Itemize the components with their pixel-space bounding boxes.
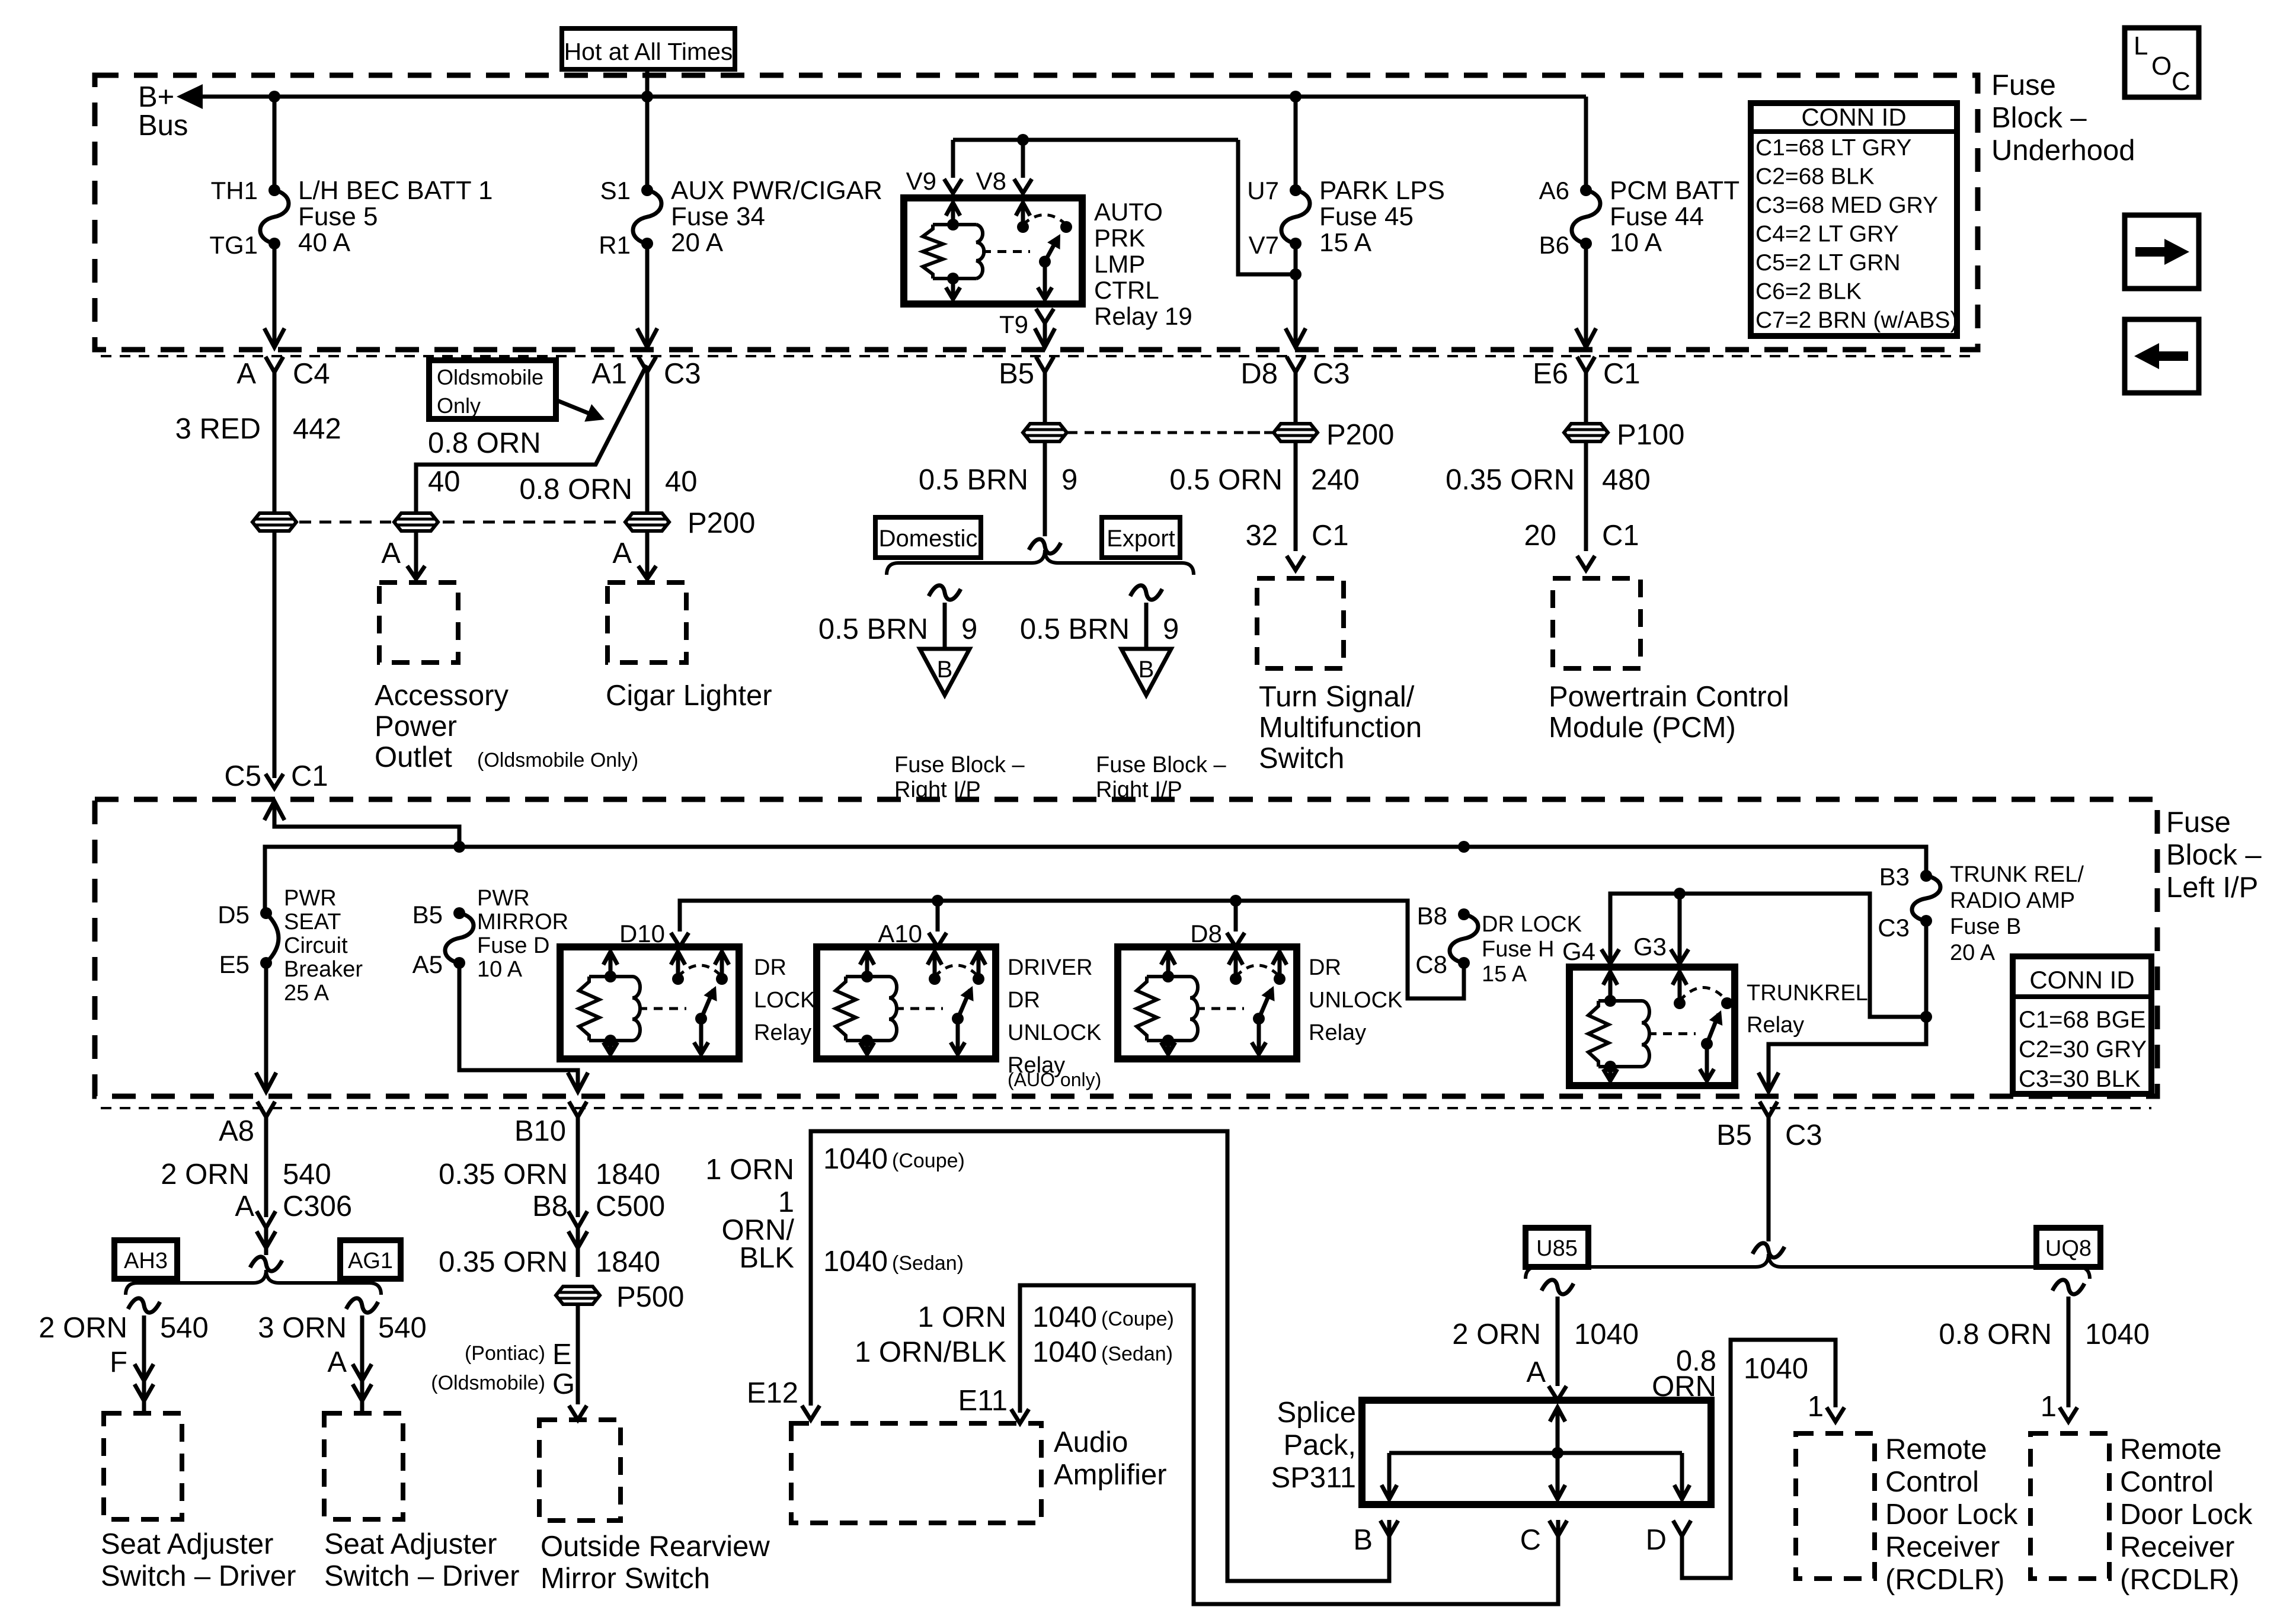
svg-text:CONN ID: CONN ID — [1801, 103, 1906, 131]
svg-text:Outside Rearview: Outside Rearview — [541, 1531, 770, 1563]
svg-text:(Coupe): (Coupe) — [1101, 1308, 1174, 1330]
svg-text:1040: 1040 — [1032, 1301, 1097, 1333]
svg-text:Switch – Driver: Switch – Driver — [324, 1560, 519, 1592]
svg-text:20 A: 20 A — [671, 228, 724, 257]
svg-text:Left I/P: Left I/P — [2166, 872, 2258, 904]
svg-text:Accessory: Accessory — [375, 680, 509, 712]
svg-text:1: 1 — [2041, 1391, 2057, 1423]
svg-text:E12: E12 — [747, 1377, 798, 1409]
svg-text:R1: R1 — [599, 231, 631, 259]
svg-text:TH1: TH1 — [211, 177, 258, 204]
svg-text:D8: D8 — [1190, 920, 1222, 948]
svg-text:E5: E5 — [219, 950, 250, 978]
svg-text:C3: C3 — [664, 358, 701, 390]
svg-text:2 ORN: 2 ORN — [39, 1312, 127, 1344]
svg-text:D8: D8 — [1240, 358, 1278, 390]
svg-text:1040: 1040 — [1032, 1336, 1097, 1368]
svg-text:C: C — [1520, 1524, 1541, 1556]
svg-text:Fuse Block –: Fuse Block – — [1096, 753, 1227, 777]
svg-text:B6: B6 — [1539, 231, 1569, 259]
svg-text:B: B — [1353, 1524, 1373, 1556]
svg-text:C1=68 BGE: C1=68 BGE — [2019, 1007, 2146, 1033]
svg-text:Fuse: Fuse — [1991, 69, 2056, 101]
svg-text:Relay: Relay — [1309, 1020, 1366, 1045]
svg-text:Control: Control — [1885, 1466, 1979, 1498]
svg-text:Underhood: Underhood — [1991, 135, 2135, 167]
svg-text:D5: D5 — [218, 901, 250, 929]
svg-text:C1: C1 — [291, 760, 328, 792]
svg-text:T9: T9 — [999, 311, 1028, 338]
svg-text:AH3: AH3 — [124, 1249, 168, 1273]
svg-text:Control: Control — [2120, 1466, 2214, 1498]
svg-text:10 A: 10 A — [1610, 228, 1662, 257]
svg-text:Power: Power — [375, 710, 457, 742]
svg-text:D: D — [1646, 1524, 1667, 1556]
svg-text:E6: E6 — [1533, 358, 1568, 390]
svg-text:15 A: 15 A — [1482, 962, 1527, 987]
svg-text:Amplifier: Amplifier — [1054, 1459, 1167, 1491]
svg-text:Remote: Remote — [1885, 1433, 1987, 1465]
svg-text:DR LOCK: DR LOCK — [1482, 912, 1582, 937]
svg-text:A: A — [235, 1190, 254, 1222]
svg-text:E11: E11 — [958, 1385, 1008, 1417]
svg-text:LOCK: LOCK — [754, 988, 815, 1013]
svg-text:F: F — [110, 1346, 127, 1378]
svg-text:Pack,: Pack, — [1283, 1429, 1356, 1461]
svg-text:Fuse: Fuse — [2166, 806, 2231, 838]
svg-text:Fuse 44: Fuse 44 — [1610, 202, 1704, 231]
svg-text:10 A: 10 A — [477, 957, 523, 982]
svg-text:Fuse H: Fuse H — [1482, 937, 1554, 962]
svg-text:9: 9 — [1061, 464, 1077, 496]
svg-text:TG1: TG1 — [209, 231, 258, 259]
svg-text:Circuit: Circuit — [284, 933, 348, 958]
svg-text:B5: B5 — [999, 358, 1034, 390]
svg-text:G3: G3 — [1633, 933, 1667, 961]
svg-text:Remote: Remote — [2120, 1433, 2222, 1465]
svg-text:S1: S1 — [600, 177, 631, 204]
svg-text:A8: A8 — [219, 1115, 254, 1147]
svg-text:2 ORN: 2 ORN — [1452, 1318, 1541, 1350]
svg-text:Fuse 45: Fuse 45 — [1319, 202, 1414, 231]
svg-text:C306: C306 — [283, 1190, 352, 1222]
svg-text:C1=68 LT GRY: C1=68 LT GRY — [1755, 135, 1911, 161]
svg-text:B8: B8 — [532, 1190, 568, 1222]
svg-text:Breaker: Breaker — [284, 957, 363, 982]
svg-text:UQ8: UQ8 — [2045, 1236, 2092, 1261]
svg-text:B8: B8 — [1417, 902, 1447, 930]
svg-text:DR: DR — [1309, 955, 1341, 980]
svg-text:G: G — [552, 1368, 575, 1400]
svg-text:A6: A6 — [1539, 177, 1569, 204]
svg-text:C3: C3 — [1313, 358, 1350, 390]
svg-text:A10: A10 — [878, 920, 922, 948]
svg-text:0.35 ORN: 0.35 ORN — [439, 1246, 568, 1278]
svg-text:V7: V7 — [1249, 231, 1279, 259]
svg-text:Fuse B: Fuse B — [1950, 914, 2021, 939]
svg-text:0.35 ORN: 0.35 ORN — [1446, 464, 1575, 496]
svg-text:1040: 1040 — [823, 1246, 888, 1278]
svg-text:Domestic: Domestic — [879, 526, 978, 552]
svg-text:Switch – Driver: Switch – Driver — [101, 1560, 296, 1592]
svg-text:PARK LPS: PARK LPS — [1319, 176, 1445, 205]
svg-text:Block –: Block – — [2166, 839, 2262, 871]
svg-text:A: A — [236, 358, 256, 390]
svg-text:CONN ID: CONN ID — [2029, 966, 2134, 994]
svg-text:0.5 BRN: 0.5 BRN — [818, 613, 928, 645]
svg-text:Mirror Switch: Mirror Switch — [541, 1563, 710, 1595]
svg-text:ORN/: ORN/ — [722, 1214, 795, 1246]
svg-text:1040: 1040 — [823, 1143, 888, 1175]
svg-text:C7=2 BRN (w/ABS): C7=2 BRN (w/ABS) — [1755, 308, 1958, 333]
svg-text:V8: V8 — [976, 167, 1006, 195]
svg-text:Multifunction: Multifunction — [1259, 712, 1422, 744]
svg-text:TRUNK REL/: TRUNK REL/ — [1950, 862, 2084, 887]
svg-text:BLK: BLK — [739, 1242, 794, 1274]
svg-text:1 ORN/BLK: 1 ORN/BLK — [855, 1336, 1006, 1368]
svg-text:C1: C1 — [1312, 520, 1349, 552]
svg-text:A1: A1 — [591, 358, 627, 390]
svg-text:1: 1 — [778, 1186, 794, 1218]
svg-text:L/H BEC BATT 1: L/H BEC BATT 1 — [298, 176, 493, 205]
svg-text:DR: DR — [1008, 988, 1040, 1013]
svg-text:B: B — [1139, 657, 1155, 683]
svg-text:E: E — [552, 1339, 572, 1371]
svg-text:DRIVER: DRIVER — [1008, 955, 1093, 980]
svg-text:240: 240 — [1311, 464, 1360, 496]
svg-text:Block –: Block – — [1991, 102, 2087, 134]
svg-text:(Oldsmobile): (Oldsmobile) — [431, 1372, 545, 1394]
svg-text:Door Lock: Door Lock — [2120, 1499, 2253, 1531]
svg-text:LMP: LMP — [1094, 250, 1145, 278]
svg-text:40: 40 — [665, 466, 698, 498]
svg-text:TRUNKREL: TRUNKREL — [1747, 981, 1868, 1006]
svg-text:Seat Adjuster: Seat Adjuster — [101, 1528, 273, 1560]
svg-text:L: L — [2134, 31, 2148, 60]
svg-text:Module (PCM): Module (PCM) — [1549, 712, 1736, 744]
svg-text:C2=30 GRY: C2=30 GRY — [2019, 1036, 2147, 1062]
svg-text:1040: 1040 — [1574, 1318, 1639, 1350]
svg-text:2 ORN: 2 ORN — [161, 1158, 250, 1190]
svg-text:0.5 BRN: 0.5 BRN — [1020, 613, 1130, 645]
svg-text:C5=2 LT GRN: C5=2 LT GRN — [1755, 250, 1901, 276]
svg-text:C4=2 LT GRY: C4=2 LT GRY — [1755, 222, 1899, 247]
svg-text:Bus: Bus — [138, 110, 188, 142]
svg-text:G4: G4 — [1562, 937, 1595, 965]
svg-text:(Pontiac): (Pontiac) — [465, 1342, 545, 1365]
svg-text:0.5 BRN: 0.5 BRN — [919, 464, 1028, 496]
svg-text:C: C — [2172, 67, 2191, 96]
svg-text:1040: 1040 — [1744, 1353, 1808, 1385]
svg-text:RADIO AMP: RADIO AMP — [1950, 888, 2075, 913]
svg-text:20: 20 — [1524, 520, 1556, 552]
svg-text:0.8 ORN: 0.8 ORN — [428, 427, 541, 459]
svg-text:Cigar Lighter: Cigar Lighter — [606, 680, 772, 712]
svg-text:PRK: PRK — [1094, 224, 1145, 252]
svg-text:0.5 ORN: 0.5 ORN — [1169, 464, 1283, 496]
svg-text:442: 442 — [293, 413, 341, 445]
svg-text:540: 540 — [378, 1312, 427, 1344]
svg-text:Splice: Splice — [1277, 1397, 1356, 1429]
svg-text:PCM BATT: PCM BATT — [1610, 176, 1739, 205]
svg-text:Turn Signal/: Turn Signal/ — [1259, 681, 1415, 713]
svg-text:ORN: ORN — [1652, 1371, 1716, 1403]
svg-text:Door Lock: Door Lock — [1885, 1499, 2018, 1531]
svg-text:20 A: 20 A — [1950, 940, 1996, 965]
svg-text:B5: B5 — [412, 901, 443, 929]
svg-text:A: A — [612, 537, 632, 569]
svg-text:C2=68 BLK: C2=68 BLK — [1755, 164, 1875, 190]
svg-text:B+: B+ — [138, 81, 174, 113]
svg-text:B: B — [937, 657, 953, 683]
svg-text:B10: B10 — [514, 1115, 566, 1147]
svg-text:Outlet: Outlet — [375, 741, 452, 773]
svg-text:SP311: SP311 — [1271, 1462, 1356, 1494]
svg-text:Oldsmobile: Oldsmobile — [437, 365, 543, 389]
svg-text:CTRL: CTRL — [1094, 276, 1159, 304]
svg-text:32: 32 — [1245, 520, 1278, 552]
svg-text:P200: P200 — [1326, 419, 1394, 451]
svg-text:D10: D10 — [619, 920, 665, 948]
svg-text:Receiver: Receiver — [2120, 1531, 2234, 1563]
svg-text:(AUO only): (AUO only) — [1008, 1069, 1101, 1090]
svg-text:(RCDLR): (RCDLR) — [2120, 1564, 2239, 1596]
svg-text:A: A — [1526, 1356, 1546, 1388]
svg-text:0.35 ORN: 0.35 ORN — [439, 1158, 568, 1190]
svg-text:C3: C3 — [1785, 1119, 1822, 1151]
svg-text:Relay: Relay — [1747, 1013, 1804, 1038]
svg-text:40 A: 40 A — [298, 228, 351, 257]
svg-text:Fuse 34: Fuse 34 — [671, 202, 765, 231]
svg-text:MIRROR: MIRROR — [477, 910, 568, 934]
svg-text:1040: 1040 — [2085, 1318, 2150, 1350]
svg-text:C500: C500 — [596, 1190, 665, 1222]
svg-text:1: 1 — [1808, 1391, 1824, 1423]
svg-text:B3: B3 — [1879, 863, 1910, 891]
svg-text:Switch: Switch — [1259, 742, 1344, 774]
svg-text:Seat Adjuster: Seat Adjuster — [324, 1528, 497, 1560]
svg-text:Fuse Block –: Fuse Block – — [894, 753, 1025, 777]
svg-text:DR: DR — [754, 955, 786, 980]
svg-text:Hot at All Times: Hot at All Times — [564, 38, 733, 65]
svg-text:C3=68 MED GRY: C3=68 MED GRY — [1755, 193, 1938, 218]
svg-text:P100: P100 — [1617, 419, 1684, 451]
svg-text:15 A: 15 A — [1319, 228, 1372, 257]
svg-text:540: 540 — [160, 1312, 209, 1344]
svg-text:UNLOCK: UNLOCK — [1008, 1020, 1101, 1045]
svg-text:P500: P500 — [616, 1281, 684, 1313]
svg-text:C1: C1 — [1602, 520, 1639, 552]
svg-text:0.8 ORN: 0.8 ORN — [1939, 1318, 2052, 1350]
svg-text:(Sedan): (Sedan) — [892, 1252, 964, 1275]
svg-text:C6=2 BLK: C6=2 BLK — [1755, 279, 1862, 305]
svg-text:O: O — [2151, 52, 2172, 81]
svg-text:1840: 1840 — [596, 1246, 660, 1278]
svg-text:40: 40 — [428, 466, 461, 498]
svg-text:(Coupe): (Coupe) — [892, 1150, 965, 1172]
svg-text:3 RED: 3 RED — [175, 413, 261, 445]
svg-text:Audio: Audio — [1054, 1426, 1128, 1458]
svg-text:Receiver: Receiver — [1885, 1531, 2000, 1563]
svg-text:Powertrain Control: Powertrain Control — [1549, 681, 1789, 713]
svg-text:V9: V9 — [906, 167, 936, 195]
svg-text:25 A: 25 A — [284, 981, 330, 1006]
svg-text:3 ORN: 3 ORN — [258, 1312, 347, 1344]
svg-text:P200: P200 — [687, 507, 755, 539]
svg-text:480: 480 — [1602, 464, 1651, 496]
svg-text:1 ORN: 1 ORN — [917, 1301, 1006, 1333]
svg-text:B5: B5 — [1716, 1119, 1752, 1151]
svg-text:A: A — [327, 1346, 347, 1378]
svg-text:Fuse 5: Fuse 5 — [298, 202, 378, 231]
svg-text:PWR: PWR — [284, 886, 337, 911]
svg-text:U85: U85 — [1536, 1236, 1578, 1261]
svg-text:A5: A5 — [412, 950, 443, 978]
svg-text:C1: C1 — [1603, 358, 1641, 390]
svg-text:1 ORN: 1 ORN — [705, 1154, 794, 1186]
svg-text:C3=30 BLK: C3=30 BLK — [2019, 1066, 2141, 1092]
svg-text:9: 9 — [961, 613, 977, 645]
svg-text:540: 540 — [283, 1158, 331, 1190]
svg-text:1840: 1840 — [596, 1158, 660, 1190]
svg-text:Export: Export — [1107, 526, 1175, 552]
svg-text:A: A — [381, 537, 401, 569]
svg-text:C4: C4 — [293, 358, 330, 390]
svg-text:Relay: Relay — [754, 1020, 811, 1045]
svg-text:UNLOCK: UNLOCK — [1309, 988, 1402, 1013]
svg-text:AUTO: AUTO — [1094, 198, 1163, 226]
svg-text:Relay 19: Relay 19 — [1094, 302, 1192, 330]
svg-text:PWR: PWR — [477, 886, 530, 911]
svg-text:Fuse D: Fuse D — [477, 933, 549, 958]
svg-text:(Oldsmobile Only): (Oldsmobile Only) — [477, 749, 638, 772]
svg-text:Only: Only — [437, 393, 481, 418]
svg-text:C3: C3 — [1878, 914, 1910, 942]
svg-text:SEAT: SEAT — [284, 910, 341, 934]
svg-text:AUX PWR/CIGAR: AUX PWR/CIGAR — [671, 176, 882, 205]
svg-text:9: 9 — [1163, 613, 1179, 645]
svg-text:0.8 ORN: 0.8 ORN — [519, 473, 632, 505]
svg-text:(Sedan): (Sedan) — [1101, 1343, 1173, 1365]
svg-text:U7: U7 — [1247, 177, 1279, 204]
svg-text:C8: C8 — [1415, 950, 1447, 978]
svg-text:AG1: AG1 — [348, 1249, 393, 1273]
svg-text:C5: C5 — [224, 760, 261, 792]
svg-text:(RCDLR): (RCDLR) — [1885, 1564, 2004, 1596]
